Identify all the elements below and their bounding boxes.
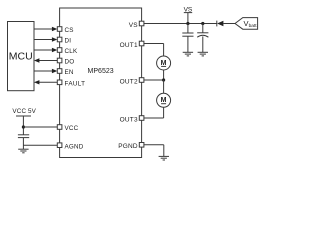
supply VCC 5V label (12, 108, 36, 115)
arrow into CS (52, 27, 57, 31)
wire C2 bottom (202, 36, 204, 52)
net label VS (184, 6, 193, 13)
wire C1 top (187, 24, 189, 34)
pin VS (139, 21, 144, 26)
junction VS and C1 (186, 22, 189, 25)
ground below C2 (198, 52, 208, 56)
junction VS and C2 (201, 22, 204, 25)
svg-text:OUT3: OUT3 (120, 116, 138, 123)
pin OUT1 (139, 41, 144, 46)
svg-text:PGND: PGND (118, 143, 138, 150)
diode D1 cathode bar (216, 21, 218, 27)
capacitor C1 plates (182, 33, 193, 36)
svg-text:OUT2: OUT2 (120, 78, 138, 85)
arrow into MCU from DO (34, 58, 39, 62)
wire tee to AGND pin (23, 144, 57, 146)
pin OUT2 (139, 78, 144, 83)
wire VS label tick (187, 13, 189, 24)
arrow into MCU from FAULT (34, 80, 39, 84)
pin label OUT3 (120, 116, 138, 123)
wire C1 bottom (187, 36, 189, 52)
port Vbatt tag (235, 18, 258, 30)
MCU U2 label (9, 51, 33, 63)
pin AGND (57, 143, 62, 148)
arrow into DI (52, 37, 57, 41)
svg-text:FAULT: FAULT (65, 80, 86, 87)
svg-text:VCC: VCC (65, 125, 79, 132)
pin label VCC (65, 125, 79, 132)
svg-text:VS: VS (129, 22, 139, 29)
arrow into EN (52, 69, 57, 73)
pin label FAULT (65, 80, 86, 87)
pin VCC (57, 125, 62, 130)
pin label DO (65, 58, 75, 65)
svg-text:MCU: MCU (9, 51, 33, 63)
svg-text:DI: DI (65, 37, 72, 44)
wire diode to Vbatt (223, 23, 235, 25)
pin label CLK (65, 48, 78, 55)
pin DI (57, 37, 62, 42)
wire MCU to CLK (34, 49, 53, 51)
wire M1 to OUT2 node (163, 70, 165, 80)
pin FAULT (57, 80, 62, 85)
svg-text:CS: CS (65, 27, 74, 34)
wire VCC junction to VCC pin (23, 126, 57, 128)
supply VCC 5V bar (16, 115, 31, 117)
pin CLK (57, 48, 62, 53)
svg-text:AGND: AGND (65, 143, 84, 150)
ground below PGND (159, 156, 169, 160)
arrow into CLK (52, 48, 57, 52)
wire DO to MCU (39, 60, 58, 62)
wire C2 top (202, 24, 204, 33)
wire FAULT to MCU (39, 81, 58, 83)
pin label PGND (118, 143, 138, 150)
pin label DI (65, 37, 72, 44)
svg-text:DO: DO (65, 58, 75, 65)
pin label VS (129, 22, 139, 29)
wire M2 to OUT3 (144, 107, 164, 118)
svg-text:EN: EN (65, 69, 74, 76)
svg-text:M: M (161, 97, 167, 104)
wire OUT1 to M1 (144, 44, 164, 57)
motor M1 (157, 56, 171, 70)
wire PGND to ground (144, 145, 164, 157)
pin label OUT1 (120, 42, 138, 49)
svg-text:VCC 5V: VCC 5V (12, 108, 36, 115)
wire VCC bar down (22, 116, 24, 135)
ground below C3 (18, 149, 28, 153)
svg-text:OUT1: OUT1 (120, 42, 138, 49)
wire C3 bottom down (22, 138, 24, 150)
capacitor C2 polarized plates (197, 33, 208, 37)
IC U1 MP6523 body (60, 8, 142, 158)
pin label CS (65, 27, 74, 34)
wire MCU to DI (34, 39, 53, 41)
MCU U2 body (8, 22, 35, 91)
port Vbatt text (244, 19, 258, 29)
svg-text:batt: batt (249, 23, 258, 29)
svg-text:MP6523: MP6523 (88, 68, 114, 75)
wire MCU to EN (34, 70, 53, 72)
ground below C1 (183, 52, 193, 56)
motor M2 (157, 93, 171, 107)
pin EN (57, 69, 62, 74)
IC U1 label MP6523 (88, 68, 114, 75)
diode D1 triangle (217, 21, 223, 27)
wire MCU to CS (34, 28, 53, 30)
pin DO (57, 58, 62, 63)
wire node to M2 (163, 80, 165, 94)
pin OUT3 (139, 116, 144, 121)
pin label OUT2 (120, 78, 138, 85)
pin label EN (65, 69, 74, 76)
junction OUT2 node (162, 78, 165, 81)
wire VS rail (144, 23, 217, 25)
pin PGND (139, 143, 144, 148)
svg-text:CLK: CLK (65, 48, 78, 55)
pin label AGND (65, 143, 84, 150)
wire OUT2 to node (144, 79, 164, 81)
svg-text:M: M (161, 60, 167, 67)
capacitor C3 plates (18, 135, 29, 138)
junction on VCC line (22, 125, 25, 128)
pin CS (57, 27, 62, 32)
